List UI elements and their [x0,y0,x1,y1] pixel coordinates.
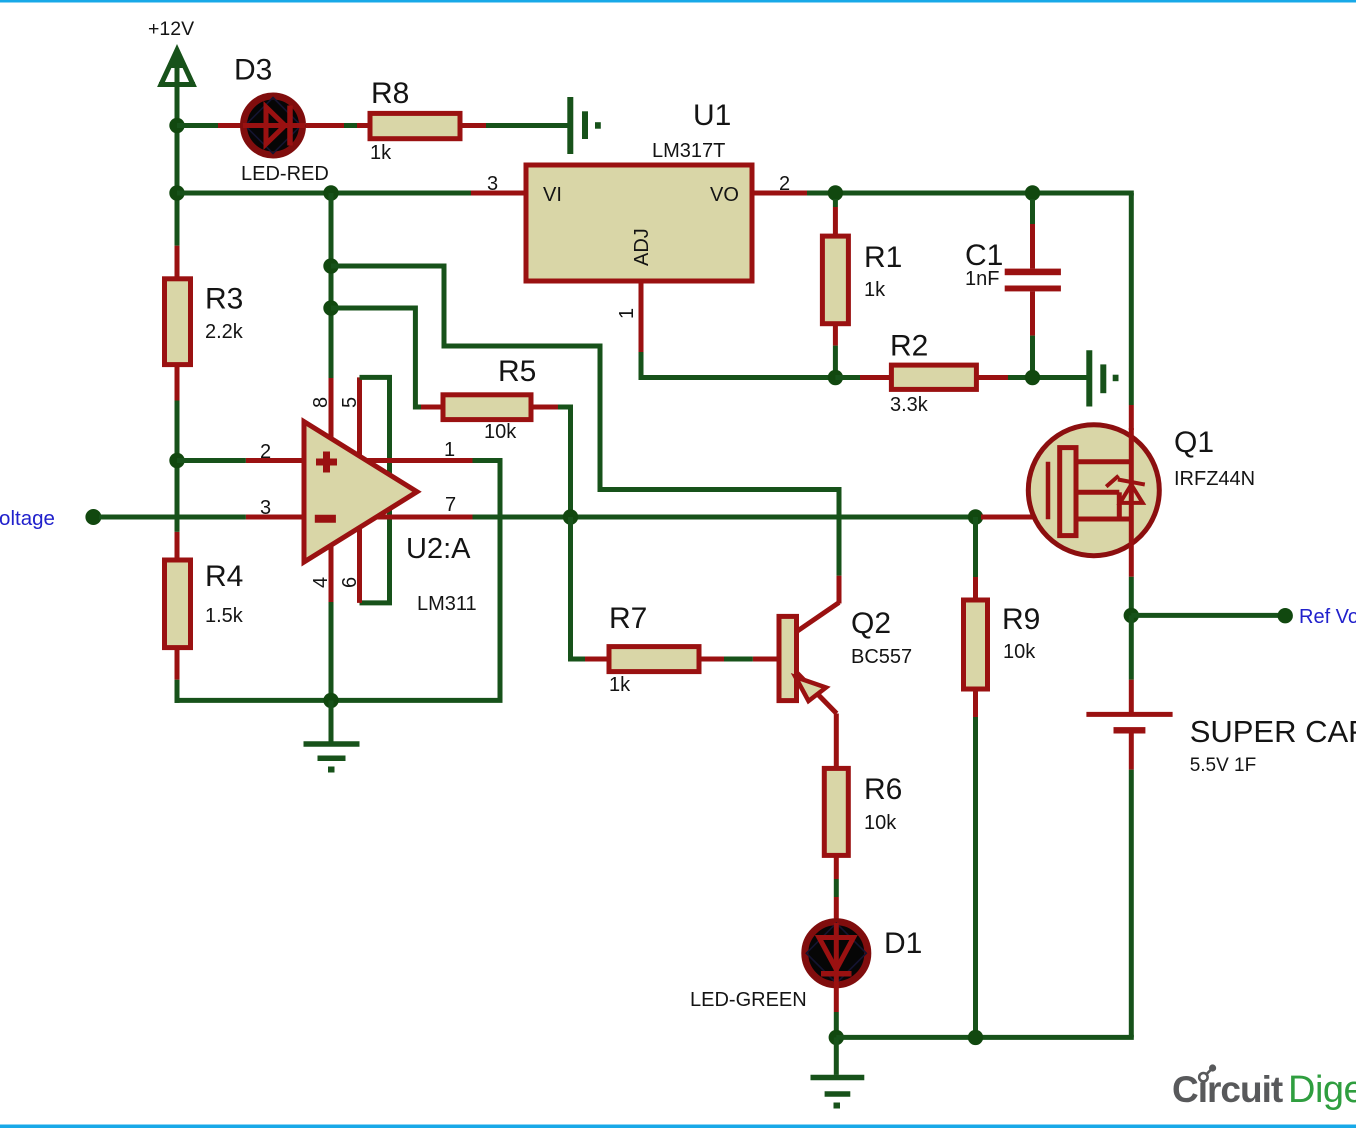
svg-text:1k: 1k [864,279,886,301]
svg-text:4: 4 [310,577,332,588]
wire battery top lead [1129,615,1134,712]
svg-text:8: 8 [310,397,332,408]
svg-text:BC557: BC557 [851,646,912,668]
svg-text:LED-GREEN: LED-GREEN [690,989,807,1011]
svg-text:2.2k: 2.2k [205,321,244,343]
battery SUPER CAP [1086,714,1172,733]
svg-text:R5: R5 [498,355,536,388]
svg-text:R7: R7 [609,602,647,635]
node source junction [1124,608,1139,623]
svg-text:R3: R3 [205,283,243,316]
svg-text:6: 6 [339,577,361,588]
svg-text:R4: R4 [205,560,243,593]
resistor R9 leads [973,517,978,1037]
node VO/R1 junction [828,185,843,200]
svg-text:IRFZ44N: IRFZ44N [1174,468,1255,490]
wire +12V rail vertical x=177 [175,126,180,703]
terminal Ref Voltage [1278,608,1293,623]
wire R6 to D1 [834,855,839,921]
resistor R1 leads [833,199,838,378]
wire vertical branch x=331 to op-amp pin 8 [329,193,334,440]
svg-text:1nF: 1nF [965,268,999,290]
resistor R1 [822,236,848,324]
svg-text:1k: 1k [370,142,392,164]
svg-text:1: 1 [616,308,638,319]
svg-text:Cırcuit: Cırcuit [1172,1069,1283,1110]
terminal input (left) [85,509,101,525]
node junction x=331 y=308 [323,300,338,315]
svg-text:U2:A: U2:A [406,533,471,565]
op-amp U2:A triangle [304,422,417,562]
svg-text:R6: R6 [864,773,902,806]
wire D3 row y=125.5 [177,123,568,128]
wire gate stub [981,515,1050,520]
svg-text:3: 3 [260,497,271,519]
svg-text:Digest: Digest [1288,1069,1356,1111]
wire Q1 source down [1129,554,1134,615]
svg-text:Ref Voltage: Ref Voltage [1299,606,1356,628]
wire bottom analog gnd y=700.4 [175,698,503,703]
ground (right of R8) [570,97,601,154]
LED D3 [243,96,305,155]
node ADJ/R1/R2 junction [828,370,843,385]
svg-text:U1: U1 [693,99,731,132]
node gate/R9 junction [968,509,983,524]
transistor Q1 IRFZ44N [1028,425,1159,556]
svg-text:Voltage: Voltage [0,507,55,530]
svg-text:VI: VI [543,184,562,206]
wire from junction 308 to R5 left [331,308,443,407]
wire op-amp pin 1 output [367,461,500,701]
svg-text:2: 2 [260,441,271,463]
svg-text:R9: R9 [1002,603,1040,636]
node pin7 junction [563,509,578,524]
svg-text:Q1: Q1 [1174,426,1214,459]
svg-text:3.3k: 3.3k [890,394,929,416]
wire to Ref Voltage terminal [1131,613,1279,618]
svg-text:R2: R2 [890,330,928,363]
node VI rail junction at rail [169,185,184,200]
node divider junction [169,453,184,468]
svg-text:D3: D3 [234,54,272,87]
ground (bottom) [811,1037,865,1108]
wire battery bottom lead [1129,734,1134,1038]
wire R5 right to pin7 net [531,407,571,517]
bottom border frame [0,1125,1356,1128]
IC U1 LM317T box [526,165,752,281]
op-amp U2:A pin 4 stub [329,545,334,700]
svg-text:1: 1 [444,439,455,461]
resistor R4 [165,560,191,648]
node R2/C1 junction [1025,370,1040,385]
wire op-amp pin2 row [177,458,304,463]
svg-text:VO: VO [710,184,739,206]
op-amp plus input mark [316,452,337,473]
svg-text:+12V: +12V [148,18,194,40]
power arrow symbol [159,48,195,126]
resistor R5 [443,395,531,420]
node gnd junction [323,693,338,708]
svg-text:ADJ: ADJ [631,228,653,266]
svg-text:R1: R1 [864,241,902,274]
svg-text:D1: D1 [884,927,922,960]
svg-text:LED-RED: LED-RED [241,163,329,185]
wire R7 from pin7 junction [571,517,780,659]
svg-text:7: 7 [445,494,456,516]
resistor R6 [824,768,848,855]
svg-text:10k: 10k [864,812,897,834]
capacitor C1 leads [1030,199,1035,378]
wire R2 row [835,375,1086,380]
svg-text:3: 3 [487,173,498,195]
svg-text:Q2: Q2 [851,607,891,640]
node R9/gnd junction [968,1030,983,1045]
wire D1 to gnd rail [834,985,839,1037]
svg-text:LM317T: LM317T [652,140,725,162]
wire pin5-pin6 loop [360,377,390,603]
wire op-amp pin 7 output [376,515,976,520]
node junction x=331 y=266 [323,258,338,273]
svg-text:5: 5 [339,397,361,408]
svg-text:10k: 10k [1003,641,1036,663]
svg-text:1.5k: 1.5k [205,605,244,627]
wire U1 ADJ pin 1 [641,281,835,378]
resistor R9 [964,600,988,689]
wire op-amp pin3 row from input terminal [99,515,304,520]
op-amp U2:A pin 6 stub [357,524,362,603]
resistor R2 [891,365,976,389]
svg-text:10k: 10k [484,421,517,443]
ground (right of R2) [1089,350,1118,406]
svg-text:SUPER CAPACITOR: SUPER CAPACITOR [1190,714,1356,749]
svg-text:R8: R8 [371,77,409,110]
node branch junction x=331 [323,185,338,200]
resistor R7 [609,647,699,672]
svg-text:5.5V 1F: 5.5V 1F [1190,755,1257,776]
node D1/gnd junction [829,1030,844,1045]
wire Q2 emitter to R6 [834,714,839,769]
ground (below op-amp) [304,700,360,772]
resistor R3 [165,279,191,365]
svg-text:LM311: LM311 [417,593,477,615]
top border frame [0,0,1356,3]
svg-text:1k: 1k [609,674,631,696]
wire bottom gnd rail [836,1035,1134,1040]
transistor Q2 BC557 [779,603,839,714]
resistor R8 [370,113,460,138]
wire VI row y=193 [177,191,526,196]
op-amp minus input mark [315,515,336,523]
op-amp U2:A pin 5 stub [357,377,362,460]
capacitor C1 plates [1005,269,1061,292]
node +12V/D3 junction [169,118,184,133]
wire U1 VO to right rail [752,193,1134,430]
LED D1 [805,922,868,985]
wire from junction 266 to Q2 collector [331,266,839,604]
logo CircuitDigest [1172,1064,1356,1111]
node VO/C1 junction [1025,185,1040,200]
